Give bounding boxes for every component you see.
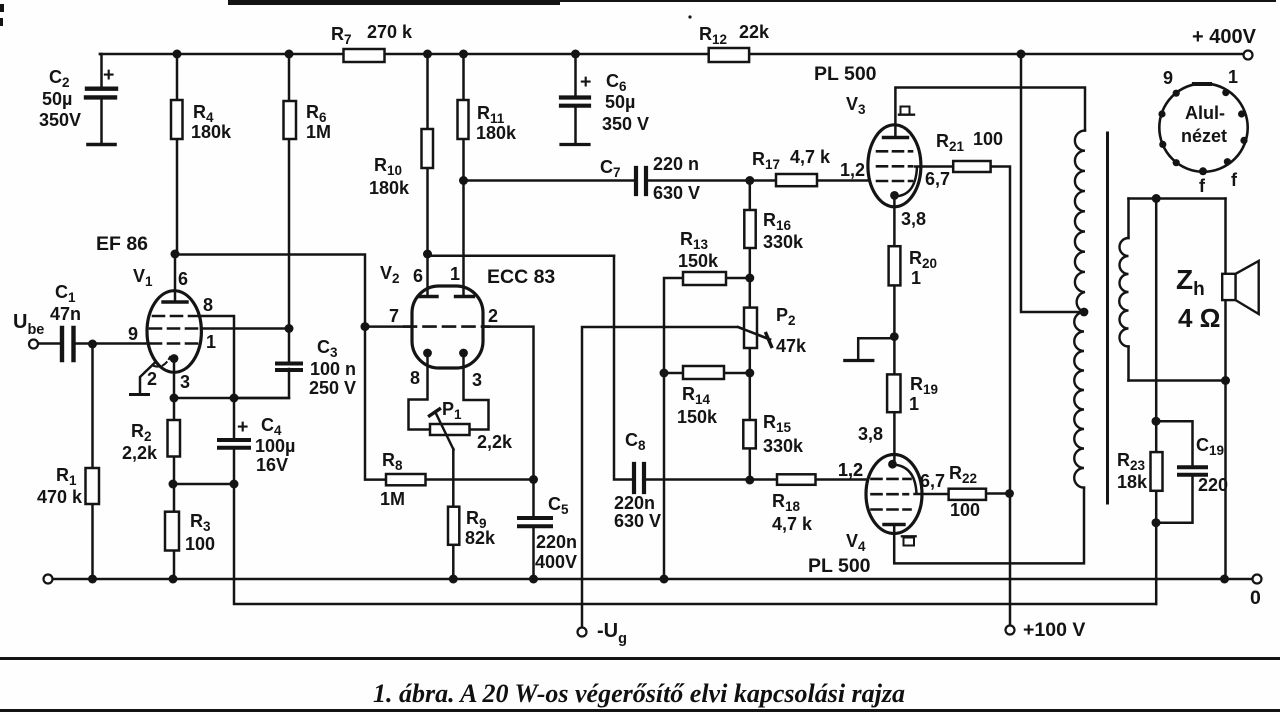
- svg-text:4 Ω: 4 Ω: [1178, 303, 1221, 333]
- resistor R16: [744, 210, 755, 248]
- svg-text:250 V: 250 V: [309, 378, 356, 398]
- ground bar at screen branch: [845, 359, 873, 362]
- wire R13 left column: [664, 278, 750, 579]
- resistor R19: [887, 374, 900, 412]
- tube V3 top cap symbol: [901, 107, 910, 115]
- node rail R11: [459, 50, 468, 59]
- wire V2 pin2 drop: [483, 327, 534, 480]
- svg-text:1M: 1M: [380, 489, 405, 509]
- transformer core: [1106, 133, 1109, 503]
- svg-text:PL 500: PL 500: [808, 555, 871, 577]
- node R23 top: [1152, 417, 1161, 426]
- resistor R6: [284, 101, 297, 139]
- capacitor C19: [1179, 467, 1206, 475]
- tube V3 grid dashes: [877, 150, 912, 153]
- svg-text:3,8: 3,8: [858, 424, 883, 444]
- resistor R10: [422, 129, 434, 168]
- svg-text:EF 86: EF 86: [96, 233, 148, 255]
- node V3 cathode: [890, 191, 899, 200]
- node pin2 R8 C5: [529, 475, 538, 484]
- wire +400V rail: [100, 53, 1244, 56]
- wire V2 pin7 from junction: [365, 325, 412, 328]
- node transformer centre tap: [1080, 308, 1089, 317]
- node C3 C4 pin8: [230, 394, 239, 403]
- tube V1 pin2 suppressor dashes and ground: [154, 357, 170, 367]
- svg-text:0: 0: [1250, 587, 1261, 609]
- capacitor C7: [636, 168, 646, 194]
- svg-text:4,7 k: 4,7 k: [790, 147, 831, 167]
- tube V1 grid dashes: [153, 315, 197, 318]
- svg-text:9: 9: [128, 324, 138, 344]
- wire V3 cathode to R21: [895, 167, 1011, 626]
- node R15 R18 C8: [745, 476, 754, 485]
- node rail R6: [285, 50, 294, 59]
- svg-text:22k: 22k: [739, 22, 770, 42]
- svg-text:180k: 180k: [369, 178, 410, 198]
- svg-text:6: 6: [413, 266, 423, 286]
- resistor R18: [777, 474, 816, 485]
- svg-text:47k: 47k: [776, 336, 807, 356]
- svg-text:f: f: [1199, 176, 1206, 196]
- resistor R23: [1151, 452, 1163, 491]
- transformer secondary winding: [1119, 238, 1128, 347]
- potentiometer P2: [744, 308, 757, 348]
- tube V1 plate bar: [163, 300, 187, 303]
- svg-text:1: 1: [911, 268, 921, 288]
- wire +400V tap to primary centre: [1021, 54, 1084, 312]
- svg-text:+: +: [103, 64, 114, 86]
- node C7 line R16: [745, 176, 754, 185]
- svg-text:16V: 16V: [256, 455, 288, 475]
- svg-text:100: 100: [185, 534, 215, 554]
- wire R11 column to V2 pin1: [462, 54, 465, 296]
- wire C4 column: [233, 398, 236, 484]
- wire V1 pin1 to R6 column: [201, 327, 289, 330]
- terminal -Ug: [578, 628, 587, 637]
- wire secondary loop bottom: [1129, 379, 1226, 382]
- svg-text:1: 1: [1228, 67, 1238, 87]
- wire V1 input grid line: [38, 342, 148, 345]
- svg-text:330k: 330k: [763, 232, 804, 252]
- node rail0 R3: [169, 575, 178, 584]
- tube V1 EF86 envelope: [147, 291, 201, 373]
- resistor R21: [953, 161, 990, 172]
- svg-text:1: 1: [450, 264, 460, 284]
- svg-text:+ 400V: + 400V: [1192, 26, 1257, 48]
- wire R2 R3 column: [173, 398, 176, 579]
- svg-text:220n: 220n: [614, 493, 655, 513]
- capacitor C8: [634, 464, 644, 492]
- svg-text:400V: 400V: [535, 552, 577, 572]
- svg-text:1: 1: [909, 394, 919, 414]
- resistor R1: [86, 468, 100, 504]
- svg-text:6,7: 6,7: [920, 471, 945, 491]
- svg-text:+100 V: +100 V: [1023, 619, 1085, 641]
- tube V2 ECC83 envelope: [412, 286, 483, 368]
- svg-text:1M: 1M: [306, 122, 331, 142]
- tube V3 plate bar: [884, 136, 908, 139]
- wire V1 pin8 to C4 column: [200, 316, 234, 398]
- wire C8 drop from node y254: [614, 256, 866, 480]
- node secondary bottom: [1221, 376, 1230, 385]
- node secondary top: [1152, 194, 1161, 203]
- wire secondary loop right with speaker: [1224, 199, 1227, 580]
- resistor R3: [165, 512, 179, 551]
- svg-text:470 k: 470 k: [37, 487, 83, 507]
- svg-text:8: 8: [410, 368, 420, 388]
- svg-text:220n: 220n: [536, 532, 577, 552]
- wire R1 column: [91, 344, 94, 579]
- node rail R10: [423, 50, 432, 59]
- wire C7 coupling line: [464, 179, 869, 182]
- node rail0 C5: [529, 575, 538, 584]
- svg-text:7: 7: [389, 306, 399, 326]
- wire C2 column: [100, 54, 102, 143]
- node rail C6: [571, 50, 580, 59]
- capacitor C5: [519, 518, 551, 526]
- socket pin dots: [1173, 90, 1180, 97]
- wire R6/C3 column: [234, 54, 289, 398]
- resistor R13: [683, 272, 726, 285]
- svg-text:2: 2: [488, 306, 498, 326]
- svg-text:nézet: nézet: [1181, 126, 1227, 146]
- svg-text:630 V: 630 V: [653, 183, 700, 203]
- node rail0 R1: [88, 575, 97, 584]
- svg-text:1: 1: [206, 332, 216, 352]
- wire C19 branch: [1156, 421, 1193, 523]
- resistor R4: [171, 100, 183, 139]
- svg-text:100 n: 100 n: [310, 359, 356, 379]
- resistor R20: [889, 246, 901, 285]
- svg-text:3: 3: [180, 372, 190, 392]
- speaker Zh: [1222, 274, 1235, 300]
- svg-text:4,7 k: 4,7 k: [772, 514, 813, 534]
- svg-text:50µ: 50µ: [42, 89, 72, 109]
- svg-text:220 n: 220 n: [653, 154, 699, 174]
- wire P2 wiper to -Ug: [582, 327, 770, 628]
- node R23 bottom: [1152, 518, 1161, 527]
- svg-text:1,2: 1,2: [840, 160, 865, 180]
- border artifacts: [228, 0, 560, 5]
- resistor R12: [709, 48, 749, 62]
- node rail0 R9: [449, 575, 458, 584]
- tube V4 top cap symbol: [902, 535, 916, 537]
- terminal Ube: [29, 340, 38, 349]
- svg-text:350 V: 350 V: [602, 114, 649, 134]
- resistor R11: [458, 100, 469, 139]
- wire V1 cathode down: [173, 359, 176, 399]
- resistor R17: [776, 174, 817, 186]
- svg-text:ECC 83: ECC 83: [487, 266, 555, 288]
- node V1 cathode: [170, 354, 179, 363]
- svg-text:180k: 180k: [191, 122, 232, 142]
- svg-text:9: 9: [1163, 68, 1173, 88]
- wire R4 column from rail to node: [176, 54, 179, 254]
- wire 0 rail: [52, 578, 1253, 581]
- node V2 grid R8 junction: [361, 322, 370, 331]
- svg-text:f: f: [1231, 170, 1238, 190]
- transformer primary winding: [1075, 131, 1085, 313]
- capacitor C6: [561, 98, 589, 106]
- svg-text:100µ: 100µ: [255, 436, 295, 456]
- wire V4 anode to transformer bottom: [894, 488, 1084, 564]
- resistor R15: [743, 420, 756, 448]
- tube V3 PL500 envelope: [868, 125, 921, 207]
- svg-text:100: 100: [973, 129, 1003, 149]
- tube V2 plate bars: [419, 295, 474, 298]
- svg-text:3,8: 3,8: [901, 209, 926, 229]
- node R14 left: [660, 369, 669, 378]
- capacitor C1: [62, 328, 74, 360]
- wire V2 pin6 to C8 drop: [428, 254, 615, 257]
- resistor R9: [448, 507, 459, 545]
- wire V2 pin8 bracket to P1: [409, 353, 431, 430]
- svg-text:PL 500: PL 500: [814, 63, 877, 85]
- svg-text:47n: 47n: [50, 304, 81, 324]
- wire P1 wiper to R9: [452, 449, 455, 579]
- svg-text:630 V: 630 V: [614, 511, 661, 531]
- wire V4 cathode to R22: [893, 465, 1011, 495]
- node cathode R2: [170, 394, 179, 403]
- svg-text:2: 2: [147, 369, 157, 389]
- svg-text:18k: 18k: [1117, 472, 1148, 492]
- tube V4 PL500 envelope: [866, 455, 922, 534]
- node C4 bias: [230, 480, 239, 489]
- wire screen ground branch: [858, 338, 894, 359]
- node R13 R16: [745, 274, 754, 283]
- terminal +400V: [1244, 51, 1253, 60]
- svg-text:330k: 330k: [763, 436, 804, 456]
- svg-text:Alul-: Alul-: [1185, 103, 1225, 123]
- svg-text:2,2k: 2,2k: [477, 432, 513, 452]
- node R2 R3: [169, 480, 178, 489]
- wire bias line C4 to R23: [234, 484, 1156, 604]
- terminal 0 right: [1253, 575, 1262, 584]
- svg-text:+: +: [580, 71, 591, 93]
- capacitor C4: [219, 440, 249, 448]
- wire C5 column: [532, 480, 535, 580]
- capacitor C2: [86, 89, 116, 98]
- svg-text:82k: 82k: [465, 528, 496, 548]
- svg-text:1. ábra. A 20 W-os végerősítő: 1. ábra. A 20 W-os végerősítő elvi kapcs…: [373, 679, 905, 708]
- svg-text:270 k: 270 k: [367, 22, 413, 42]
- node C7 line R11: [459, 176, 468, 185]
- bottom rule 2: [0, 709, 1280, 712]
- resistor R8: [386, 474, 426, 485]
- svg-text:50µ: 50µ: [605, 92, 635, 112]
- potentiometer P1: [430, 424, 470, 435]
- node R10 V2 pin6: [423, 250, 432, 259]
- svg-text:6: 6: [178, 269, 188, 289]
- tube V4 grid dashes: [872, 478, 911, 481]
- wire V1 anode to V2 grid net: [175, 255, 386, 480]
- wire cathode link y398: [174, 397, 289, 400]
- node R4 V1 pin6: [171, 250, 180, 259]
- node input R1: [88, 340, 97, 349]
- svg-text:150k: 150k: [677, 407, 718, 427]
- tube socket bottom view Alul-nezet: [1159, 83, 1247, 171]
- svg-text:+: +: [237, 416, 248, 438]
- tube V4 plate bar: [884, 523, 904, 526]
- svg-text:100: 100: [950, 500, 980, 520]
- svg-text:3: 3: [472, 370, 482, 390]
- wire V3 anode to transformer: [895, 88, 1085, 138]
- wire R14 lead: [664, 372, 750, 375]
- node R14 right: [745, 369, 754, 378]
- svg-text:150k: 150k: [678, 251, 719, 271]
- bottom rule 1: [0, 657, 1280, 660]
- wire secondary loop top: [1129, 197, 1226, 200]
- node rail transformer tap: [1017, 50, 1026, 59]
- node V4 cathode: [888, 460, 897, 469]
- wire link R2 to C4 y484: [173, 483, 234, 486]
- capacitor C3: [277, 364, 301, 371]
- svg-text:2,2k: 2,2k: [122, 443, 158, 463]
- wire R8 to C5 node: [426, 478, 534, 481]
- node V2 cathode pin8: [423, 349, 432, 358]
- node V1 pin1 R6: [285, 324, 294, 333]
- svg-text:220: 220: [1198, 475, 1228, 495]
- svg-text:180k: 180k: [476, 123, 517, 143]
- wire R16 P2 R15 column: [749, 181, 752, 481]
- tube V2 grid dashes: [404, 325, 489, 328]
- node rail0 speaker: [1220, 575, 1229, 584]
- terminal 0 left: [44, 575, 53, 584]
- resistor R7: [344, 49, 385, 62]
- node R22 +100V: [1005, 489, 1014, 498]
- node rail R4: [173, 50, 182, 59]
- svg-text:6,7: 6,7: [925, 169, 950, 189]
- wire V1 pin6 anode drop: [174, 254, 177, 301]
- svg-text:8: 8: [203, 295, 213, 315]
- wire R10 column to V2 pin6: [426, 54, 429, 296]
- terminal +100V: [1006, 626, 1015, 635]
- wire V2 pin3 bracket to P1: [464, 353, 489, 430]
- wire C6 column: [574, 54, 577, 143]
- node rail0 divider: [660, 575, 669, 584]
- wire secondary loop left: [1127, 199, 1130, 381]
- resistor R2: [168, 420, 181, 457]
- node R20 R19 screen: [890, 332, 899, 341]
- node V2 cathode pin3: [459, 349, 468, 358]
- wire V3 cathode column: [893, 195, 896, 463]
- wire R23 column: [1155, 199, 1158, 605]
- resistor R22: [949, 489, 986, 500]
- resistor R14: [683, 366, 724, 379]
- svg-text:350V: 350V: [39, 110, 81, 130]
- svg-text:1,2: 1,2: [838, 460, 863, 480]
